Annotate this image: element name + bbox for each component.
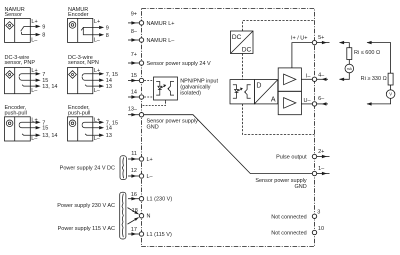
svg-text:14: 14 — [106, 126, 112, 132]
svg-text:Sensor: Sensor — [5, 12, 23, 18]
svg-text:L+: L+ — [31, 19, 37, 25]
svg-text:13, 14: 13, 14 — [42, 133, 57, 139]
svg-text:N: N — [147, 214, 151, 220]
svg-text:14: 14 — [131, 90, 137, 96]
svg-text:L1 (230 V): L1 (230 V) — [147, 197, 173, 203]
svg-text:11: 11 — [131, 151, 137, 157]
svg-text:push-pull: push-pull — [68, 110, 90, 116]
svg-text:8: 8 — [42, 33, 45, 39]
svg-text:10: 10 — [318, 226, 324, 232]
svg-text:Not connected: Not connected — [271, 231, 306, 237]
svg-text:mA: mA — [347, 67, 353, 71]
svg-text:12: 12 — [131, 168, 137, 174]
svg-text:L+: L+ — [147, 157, 153, 163]
svg-text:7+: 7+ — [131, 52, 137, 58]
svg-text:5+: 5+ — [318, 35, 324, 41]
svg-text:U–: U– — [303, 98, 311, 104]
svg-text:Ri ≥ 330 Ω: Ri ≥ 330 Ω — [361, 76, 387, 82]
svg-text:DC: DC — [232, 34, 242, 41]
svg-text:15: 15 — [42, 126, 48, 132]
svg-text:15: 15 — [131, 73, 137, 79]
svg-text:18: 18 — [132, 208, 138, 214]
svg-text:L–: L– — [94, 38, 101, 44]
svg-text:9+: 9+ — [131, 12, 137, 18]
svg-text:16: 16 — [131, 192, 137, 198]
svg-text:D: D — [256, 82, 261, 89]
svg-text:13–: 13– — [128, 106, 138, 112]
svg-text:GND: GND — [294, 184, 306, 190]
svg-text:Power supply 230 V AC: Power supply 230 V AC — [57, 203, 115, 209]
svg-text:DC: DC — [242, 46, 252, 53]
svg-text:8: 8 — [106, 33, 109, 39]
svg-text:isolated): isolated) — [180, 90, 201, 96]
svg-text:Power supply 24 V DC: Power supply 24 V DC — [60, 166, 115, 172]
svg-text:Encoder: Encoder — [68, 12, 89, 18]
svg-text:L–: L– — [147, 174, 154, 180]
svg-text:13: 13 — [106, 84, 112, 90]
svg-text:9: 9 — [42, 24, 45, 30]
svg-text:17: 17 — [131, 227, 137, 233]
svg-text:L–: L– — [31, 88, 38, 94]
svg-text:L–: L– — [94, 88, 101, 94]
svg-text:GND: GND — [147, 124, 159, 130]
svg-text:4–: 4– — [318, 73, 325, 79]
svg-text:L+: L+ — [94, 19, 100, 25]
svg-text:sensor, PNP: sensor, PNP — [5, 60, 36, 66]
svg-text:2+: 2+ — [318, 149, 324, 155]
svg-text:6–: 6– — [318, 96, 325, 102]
svg-text:13, 14: 13, 14 — [42, 84, 57, 90]
svg-text:13: 13 — [106, 133, 112, 139]
svg-text:3: 3 — [317, 209, 320, 215]
svg-text:NAMUR L–: NAMUR L– — [147, 38, 176, 44]
svg-text:NAMUR L+: NAMUR L+ — [147, 21, 175, 27]
svg-text:Not connected: Not connected — [271, 214, 306, 220]
svg-text:A: A — [271, 97, 276, 104]
svg-text:9: 9 — [106, 25, 109, 31]
svg-text:L–: L– — [31, 136, 38, 142]
svg-text:V: V — [389, 92, 392, 97]
svg-text:Ri ≤ 600 Ω: Ri ≤ 600 Ω — [354, 50, 380, 56]
svg-text:Power supply 115 V AC: Power supply 115 V AC — [58, 226, 115, 232]
svg-text:1–: 1– — [318, 166, 325, 172]
svg-text:L–: L– — [31, 38, 38, 44]
svg-text:Pulse output: Pulse output — [276, 154, 307, 160]
svg-text:7: 7 — [42, 72, 45, 78]
svg-text:I+ / U+: I+ / U+ — [291, 36, 308, 42]
svg-text:7, 15: 7, 15 — [106, 72, 118, 78]
svg-text:sensor, NPN: sensor, NPN — [68, 60, 99, 66]
svg-text:push-pull: push-pull — [5, 110, 27, 116]
svg-text:L–: L– — [94, 136, 101, 142]
svg-text:Sensor power supply 24 V: Sensor power supply 24 V — [147, 61, 212, 67]
svg-text:8–: 8– — [131, 29, 138, 35]
svg-text:L1 (115 V): L1 (115 V) — [147, 232, 172, 238]
